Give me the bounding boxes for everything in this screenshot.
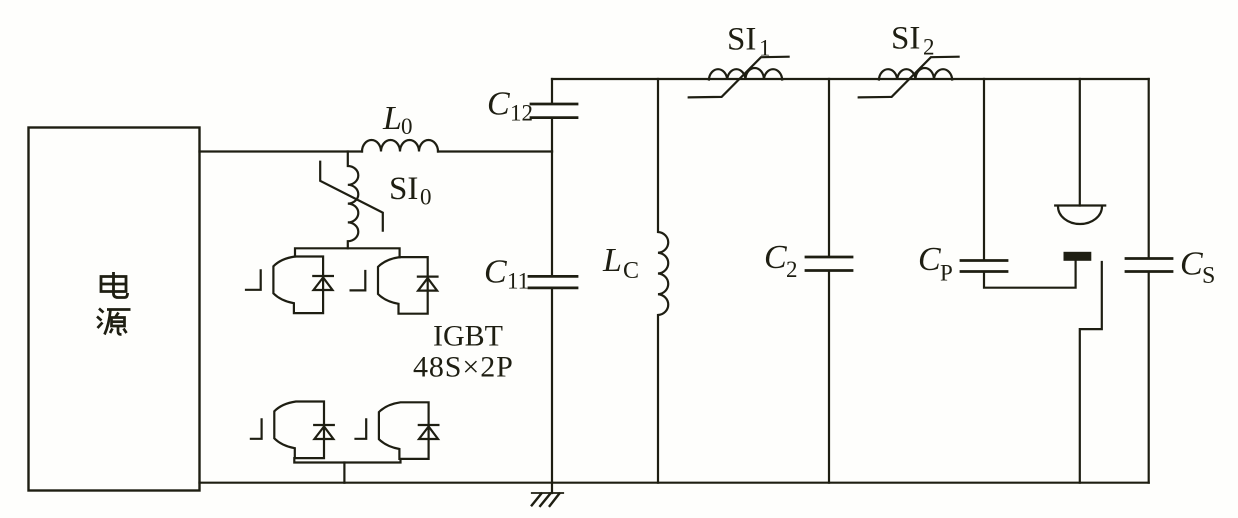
IGBT Q4 (bottom-right: body, gate, diode) <box>356 402 439 459</box>
wire: top bus to upper electrode <box>1079 79 1081 206</box>
svg-text:48S×2P: 48S×2P <box>413 350 514 383</box>
svg-text:SI: SI <box>891 21 920 57</box>
wire: top bus to CP <box>983 79 985 259</box>
saturable inductor SI0 coil <box>348 152 359 249</box>
IGBT Q3 (bottom-left: body, gate, diode) <box>251 402 334 459</box>
saturable inductor SI1 coil <box>709 68 782 80</box>
capacitor CP <box>961 259 1007 262</box>
svg-text:IGBT: IGBT <box>433 320 503 353</box>
svg-text:C: C <box>1180 246 1203 283</box>
svg-text:C: C <box>623 258 639 284</box>
inductor LC branch (wire, coil, wire) <box>658 79 668 483</box>
svg-text:SI: SI <box>389 171 418 207</box>
inductor L0 <box>362 140 438 152</box>
wire: top bus to C12 <box>551 79 553 103</box>
capacitor C11 <box>529 275 577 278</box>
capacitor C2 <box>806 256 852 259</box>
capacitor C12 <box>531 103 577 106</box>
power source box (电源) <box>29 128 200 491</box>
svg-text:12: 12 <box>510 101 533 126</box>
SI0 saturable-core slash <box>320 162 383 231</box>
SI2 saturable-core slash <box>859 57 959 98</box>
wire: L0 to node A <box>438 150 552 152</box>
ground <box>532 492 563 494</box>
svg-text:P: P <box>940 261 953 286</box>
wire: bottom bus <box>200 482 1149 484</box>
wire: CS to bottom bus <box>1148 273 1150 483</box>
wire: top bus <box>552 78 1149 80</box>
saturable inductor SI2 coil <box>879 68 952 80</box>
svg-text:SI: SI <box>727 22 756 58</box>
svg-text:C: C <box>484 254 507 291</box>
text 源 (drawn strokes) <box>97 309 131 335</box>
svg-text:0: 0 <box>401 114 413 139</box>
capacitor CS <box>1126 257 1172 260</box>
wire: lower electrode lead with jog to bottom bus <box>1080 262 1102 483</box>
svg-text:L: L <box>602 242 622 279</box>
svg-text:C: C <box>764 239 787 276</box>
SI1 saturable-core slash <box>689 57 789 98</box>
svg-text:C: C <box>487 86 510 123</box>
upper electrode (bowl) <box>1055 204 1105 206</box>
wire: node A down to C11 <box>551 152 553 275</box>
IGBT Q1 (top-left: body, gate, diode) <box>246 257 333 314</box>
svg-text:L: L <box>382 100 402 137</box>
svg-text:2: 2 <box>786 257 798 282</box>
svg-text:C: C <box>918 241 941 278</box>
IGBT Q2 (top-right: body, gate, diode) <box>351 257 438 314</box>
wire: IGBT top connector <box>295 248 400 257</box>
svg-text:1: 1 <box>759 36 771 61</box>
wire: tap to bottom bus <box>343 463 345 483</box>
svg-text:S: S <box>1202 263 1215 289</box>
svg-text:0: 0 <box>420 185 432 210</box>
wire: top bus to C2 <box>828 79 830 256</box>
svg-text:11: 11 <box>507 269 529 294</box>
lower electrode block <box>1064 252 1092 261</box>
svg-text:2: 2 <box>923 35 935 60</box>
wire: C12 to node A <box>551 119 553 152</box>
wire: box to L0 <box>200 150 363 152</box>
text 电 (drawn strokes) <box>101 272 128 298</box>
wire: C2 to bottom bus <box>828 272 830 483</box>
wire: top bus to CS <box>1148 79 1150 257</box>
wire: IGBT bottom connector <box>294 458 400 462</box>
wire: CP bottom to electrode block <box>984 261 1076 288</box>
wire: C11 to bottom bus and ground <box>551 289 553 493</box>
